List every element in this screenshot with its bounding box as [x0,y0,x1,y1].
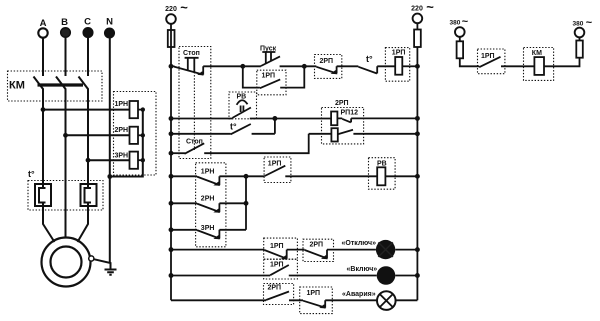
svg-text:~: ~ [426,0,434,15]
svg-text:B: B [61,17,68,28]
svg-text:2РП: 2РП [268,284,282,291]
svg-text:2РП: 2РП [335,100,349,107]
svg-text:N: N [106,17,113,28]
svg-text:1РН: 1РН [201,168,215,175]
svg-text:РВ: РВ [377,160,387,167]
svg-text:1РП: 1РП [270,262,284,269]
svg-text:2РП: 2РП [310,242,324,249]
svg-text:~: ~ [586,17,593,29]
svg-text:Стоп: Стоп [183,50,200,57]
svg-text:«Включ»: «Включ» [347,266,378,273]
svg-text:220: 220 [411,6,423,13]
svg-text:~: ~ [462,16,469,28]
svg-text:1РН: 1РН [115,101,129,108]
svg-text:t°: t° [230,122,237,132]
svg-text:1РП: 1РП [262,73,276,80]
svg-text:2РН: 2РН [115,127,129,134]
svg-text:«Отключ»: «Отключ» [342,240,377,247]
svg-text:3РН: 3РН [115,153,129,160]
svg-text:220: 220 [165,6,177,13]
svg-text:1РП: 1РП [481,53,495,60]
svg-text:1РП: 1РП [307,290,321,297]
svg-text:1РП: 1РП [268,160,282,167]
svg-text:1РП: 1РП [270,243,284,250]
svg-text:РП12: РП12 [341,110,359,117]
svg-text:3РН: 3РН [201,225,215,232]
svg-text:C: C [84,17,91,28]
svg-text:2РП: 2РП [320,58,334,65]
svg-text:1РП: 1РП [392,50,406,57]
svg-text:КМ: КМ [532,50,542,57]
svg-text:«Авария»: «Авария» [342,291,376,298]
svg-text:t°: t° [28,169,35,179]
svg-text:2РН: 2РН [201,196,215,203]
svg-text:380: 380 [450,20,461,27]
svg-text:380: 380 [573,21,584,28]
svg-text:КМ: КМ [9,80,25,92]
svg-text:t°: t° [366,54,373,64]
svg-text:~: ~ [180,0,188,15]
